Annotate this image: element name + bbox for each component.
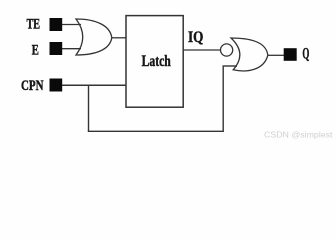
wire CPN to Latch [62, 84, 126, 86]
pin Q [284, 48, 297, 61]
wire E to OR gate [62, 48, 81, 50]
svg-text:CPN: CPN [21, 78, 44, 94]
svg-text:CSDN @simplest: CSDN @simplest [264, 131, 333, 140]
pin CPN [50, 79, 63, 92]
or-gate U3 [231, 38, 268, 71]
wire feedback into U3 lower input [223, 65, 238, 67]
svg-text:TE: TE [27, 16, 41, 32]
wire Latch output IQ to bubble [183, 49, 221, 51]
svg-text:Q: Q [302, 46, 309, 63]
wire U3 output to Q pin [268, 54, 284, 56]
wire OR gate output to Latch [112, 37, 126, 39]
or-gate U1 [76, 19, 112, 55]
svg-text:IQ: IQ [188, 29, 203, 46]
wire feedback junction drop from CPN net [88, 85, 90, 131]
svg-text:E: E [32, 42, 39, 58]
wire feedback bottom run [88, 130, 224, 132]
svg-text:Latch: Latch [142, 53, 171, 70]
inverter bubble on U3 top input [221, 44, 233, 56]
pin TE [50, 18, 63, 31]
wire feedback rise to U3 [222, 66, 224, 131]
pin E [50, 42, 63, 55]
wire TE to OR gate [62, 24, 81, 26]
latch U2 box [126, 16, 183, 108]
